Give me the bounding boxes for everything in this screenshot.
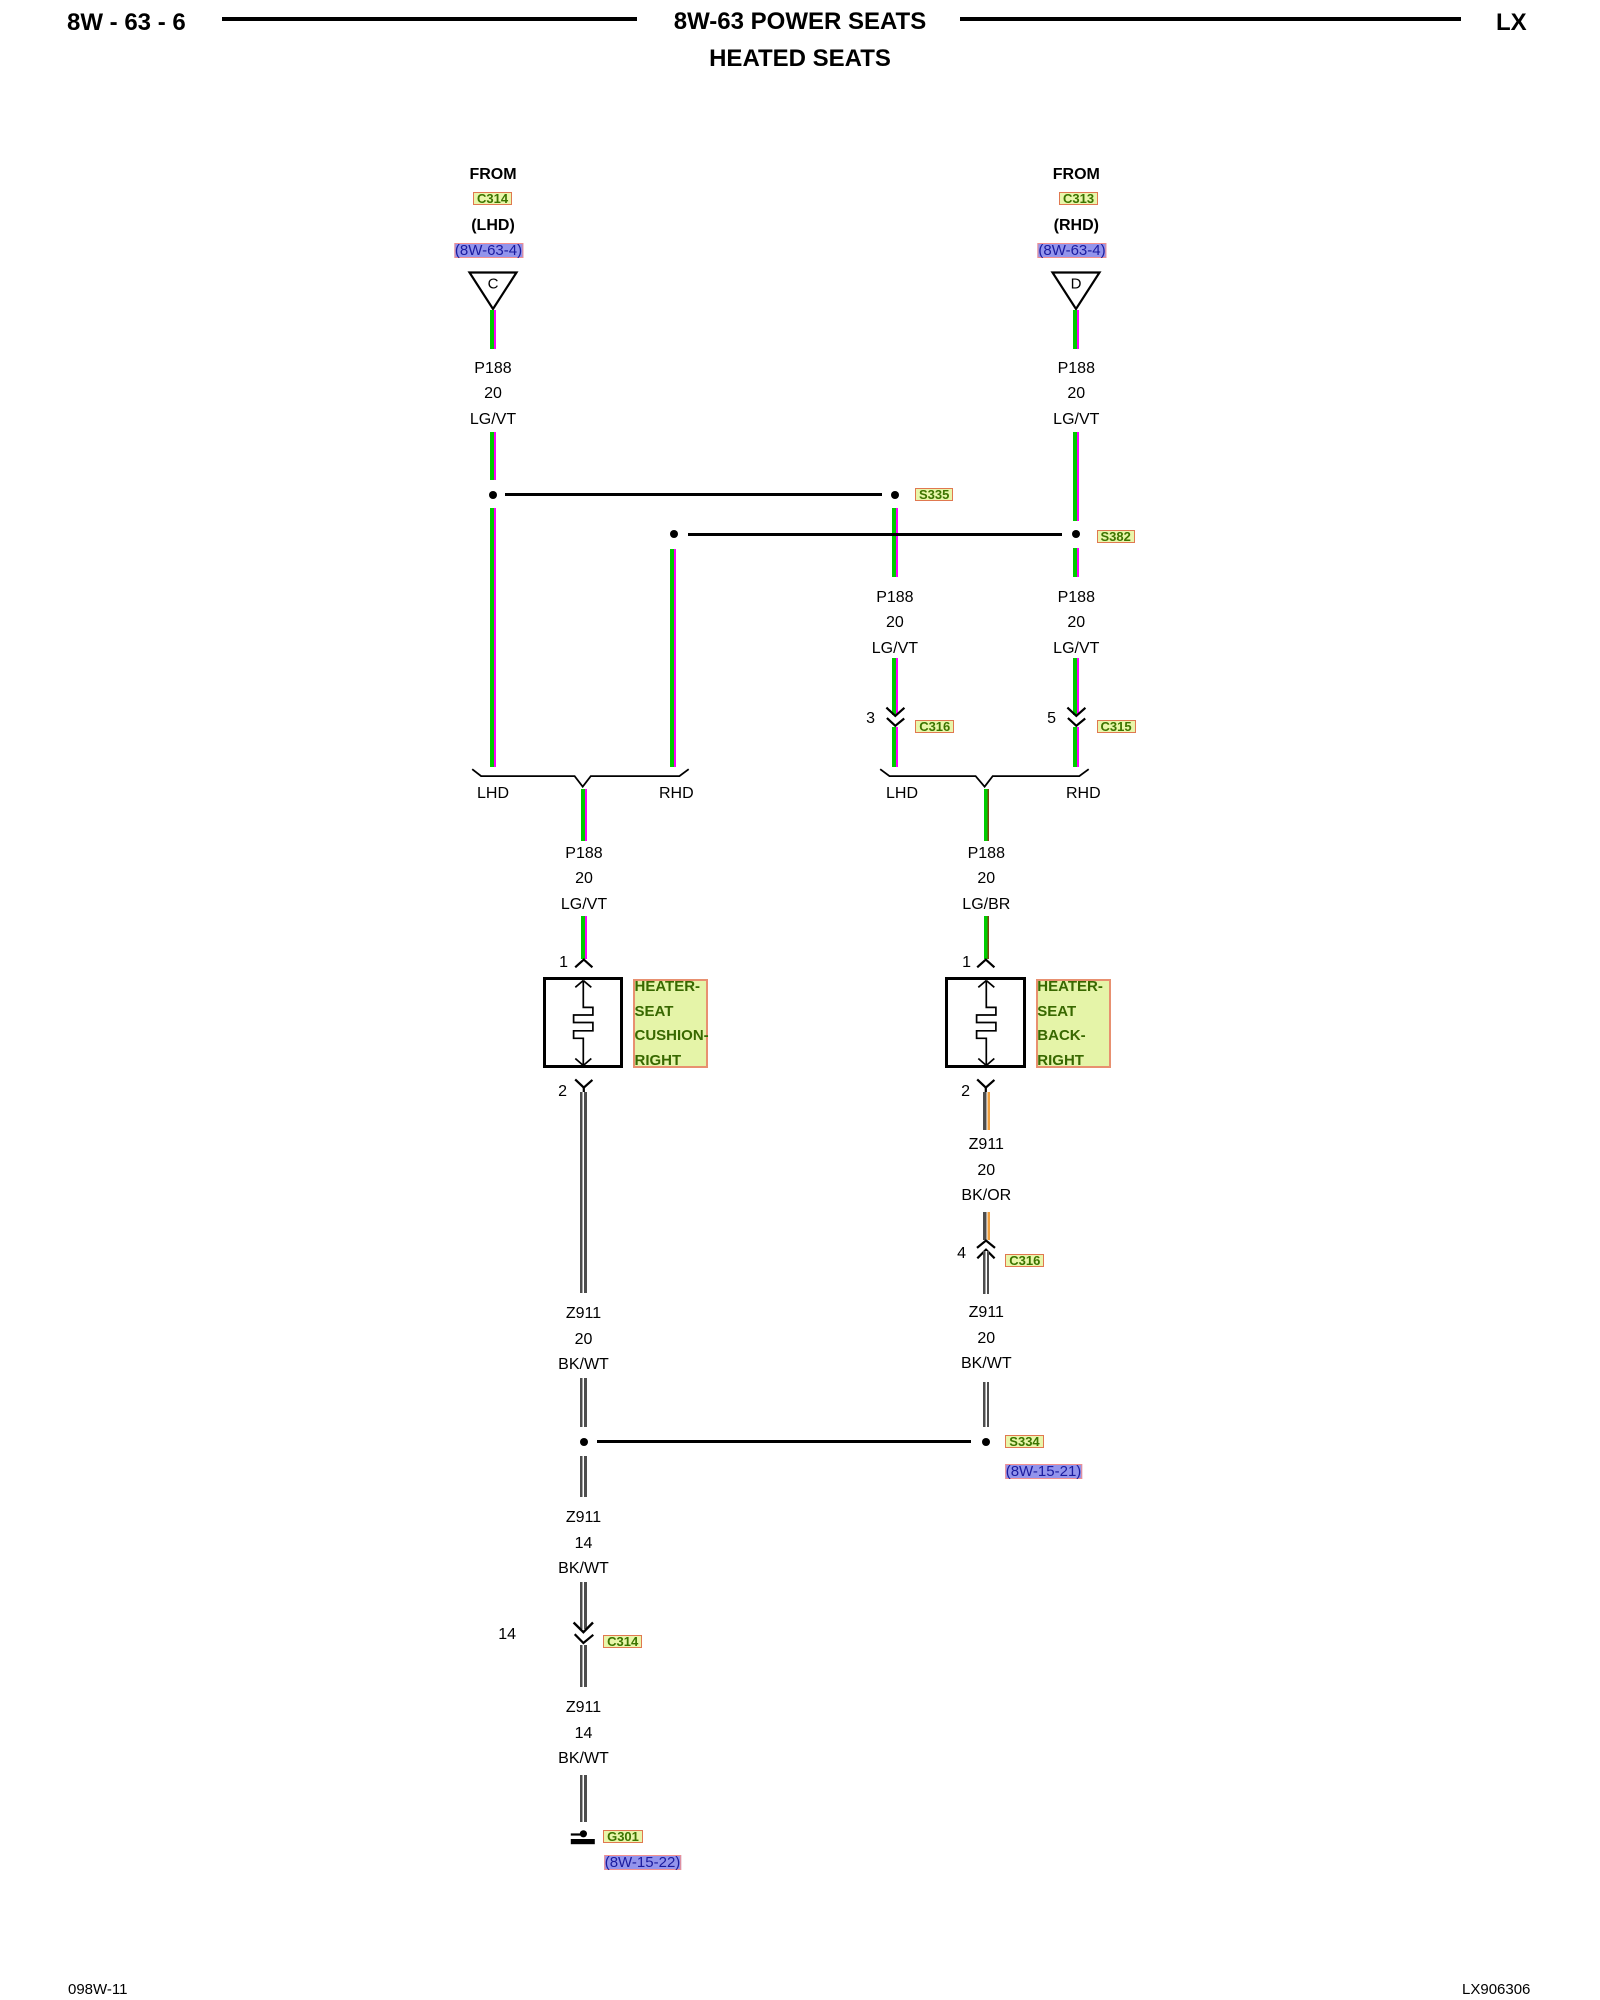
header rule left (222, 17, 637, 21)
wire label Z911 20 BK/WT (right) (961, 1300, 1012, 1377)
pin number 14 (490, 1626, 516, 1644)
label FROM (RHD feed) (1053, 166, 1100, 184)
heater-seat back-right element box (945, 977, 1026, 1069)
wire label P188 20 LG/VT (cushion feed) (561, 841, 607, 918)
label LHD (left brace) (477, 785, 509, 803)
splice junction dot S335 right (891, 491, 899, 499)
wire P188 LG/VT (label to pin 1 cushion) (581, 916, 587, 959)
wire Z911 BK/OR (label to C316) (983, 1212, 990, 1240)
splice junction dot S334 left (580, 1438, 588, 1446)
brace right (LHD/RHD merge) (878, 767, 1091, 789)
wire P188 LG/VT (C316 to LHD brace) (892, 727, 898, 767)
wire P188 LG/VT (D to label) (1073, 310, 1079, 349)
wire P188 LG/VT (label to C315) (1073, 658, 1079, 715)
pin 1 chevron (cushion) (574, 958, 594, 969)
splice bus wire S334 (597, 1440, 971, 1443)
svg-text:C: C (488, 276, 499, 293)
wire Z911 BK/WT (C314 down) (580, 1645, 587, 1687)
ground symbol G301 (569, 1829, 597, 1846)
wire P188 LG/VT (label to C316) (892, 658, 898, 715)
pin number 2 (back) (954, 1083, 970, 1101)
splice label S334 (1005, 1435, 1043, 1448)
inline connector C316 pin 4 chevron and arrow (976, 1239, 997, 1260)
wire Z911 BK/WT (S334 down) (580, 1456, 587, 1498)
wire label Z911 14 BK/WT (lower) (558, 1695, 609, 1772)
label LHD (right brace) (886, 785, 918, 803)
reference (8W-15-21) (1005, 1464, 1083, 1479)
wire P188 LG/VT (C to label) (490, 310, 496, 349)
wire P188 LG/BR (label to pin 1 back) (984, 916, 989, 959)
inline connector C315 pin 5 chevrons (1066, 705, 1088, 729)
pin number 4 (950, 1245, 966, 1263)
pin 2 chevron (back) (976, 1078, 996, 1093)
splice junction dot S382 right (1072, 530, 1080, 538)
wire Z911 BK/OR (pin 2 back down) (983, 1092, 990, 1131)
connector label C314 (feed) (473, 192, 512, 205)
wire label P188 20 LG/BR (seat back feed) (962, 841, 1010, 918)
wire Z911 BK/WT (label to C314) (580, 1582, 587, 1629)
ground label G301 (603, 1830, 643, 1843)
wire Z911 BK/WT (C316 to label, right) (983, 1251, 990, 1295)
heater element symbol (back) (966, 979, 1007, 1068)
reference (8W-15-22) (604, 1855, 682, 1870)
splice label S335 (915, 488, 953, 501)
subtitle HEATED SEATS (709, 45, 891, 73)
wire P188 LG/VT (label to S382) (1073, 432, 1079, 521)
connector label C314 (lower) (603, 1635, 642, 1648)
heater-seat cushion-right element box (543, 977, 624, 1069)
page number 8W - 63 - 6 (67, 9, 186, 37)
wire Z911 BK/WT (label to S334) (580, 1378, 587, 1427)
splice junction dot S335 left (489, 491, 497, 499)
wire P188 LG/VT (S382 down to label) (1073, 548, 1079, 577)
header rule right (960, 17, 1461, 21)
model code LX (1496, 9, 1527, 37)
splice bus wire S382 (688, 533, 1063, 536)
wire label Z911 14 BK/WT (upper) (558, 1505, 609, 1582)
splice junction dot S382 left (670, 530, 678, 538)
wire P188 LG/VT (C315 to RHD brace) (1073, 727, 1079, 767)
wire Z911 BK/WT (label to S334 right) (983, 1382, 990, 1427)
inline connector C314 arrow (572, 1620, 596, 1646)
label (RHD) (1054, 217, 1099, 235)
connector label C316 (915, 720, 954, 733)
label RHD (left brace) (659, 785, 694, 803)
wire label P188 20 LG/VT (right inner) (1053, 585, 1099, 662)
splice label S382 (1097, 530, 1135, 543)
wire P188 LG/VT (S335 to LHD brace) (490, 508, 496, 767)
off-page connector D (1051, 271, 1101, 312)
connector label C315 (1097, 720, 1136, 733)
wire P188 LG/VT (left brace to label) (581, 789, 587, 842)
wire label P188 20 LG/VT (right feed) (1053, 356, 1099, 433)
footer sheet code 098W-11 (68, 1981, 127, 1998)
title 8W-63 POWER SEATS (674, 8, 926, 36)
splice junction dot S334 right (982, 1438, 990, 1446)
reference (8W-63-4) RHD (1037, 243, 1106, 258)
wire P188 LG/BR (right brace to label) (984, 789, 989, 842)
svg-text:D: D (1071, 276, 1082, 293)
pin number 2 (cushion) (551, 1083, 567, 1101)
pin 1 chevron (back) (976, 958, 996, 969)
component label HEATER-SEAT CUSHION-RIGHT (633, 979, 708, 1068)
wire Z911 BK/WT (label to ground) (580, 1775, 587, 1822)
splice bus wire S335 (505, 493, 882, 496)
connector label C316 (pin 4) (1005, 1254, 1044, 1267)
inline connector C316 pin 3 chevrons (885, 705, 907, 729)
pin 2 chevron (cushion) (574, 1078, 594, 1093)
label RHD (right brace) (1066, 785, 1101, 803)
connector label C313 (feed) (1059, 192, 1098, 205)
pin number 1 (cushion) (552, 954, 568, 972)
wire label P188 20 LG/VT (middle) (872, 585, 918, 662)
label (LHD) (471, 217, 515, 235)
wire label Z911 20 BK/WT (left) (558, 1301, 609, 1378)
wire P188 LG/VT (label to S335) (490, 432, 496, 481)
label FROM (LHD feed) (469, 166, 516, 184)
wire Z911 BK/WT (pin 2 cushion long run) (580, 1092, 587, 1294)
heater element symbol (cushion) (563, 979, 604, 1068)
footer drawing code LX906306 (1462, 1981, 1530, 1998)
reference (8W-63-4) LHD (454, 243, 523, 258)
wire P188 LG/VT (S335 leg down) (892, 508, 898, 577)
wire label P188 20 LG/VT (left feed) (470, 356, 516, 433)
component label HEATER-SEAT BACK-RIGHT (1036, 979, 1111, 1068)
wire label Z911 20 BK/OR (961, 1132, 1011, 1209)
pin number 1 (back) (955, 954, 971, 972)
wire P188 LG/VT branch (S382 leg) (670, 549, 676, 767)
off-page connector C (468, 271, 518, 312)
pin number 3 (859, 710, 875, 728)
brace left (LHD/RHD merge) (470, 767, 691, 789)
pin number 5 (1040, 710, 1056, 728)
